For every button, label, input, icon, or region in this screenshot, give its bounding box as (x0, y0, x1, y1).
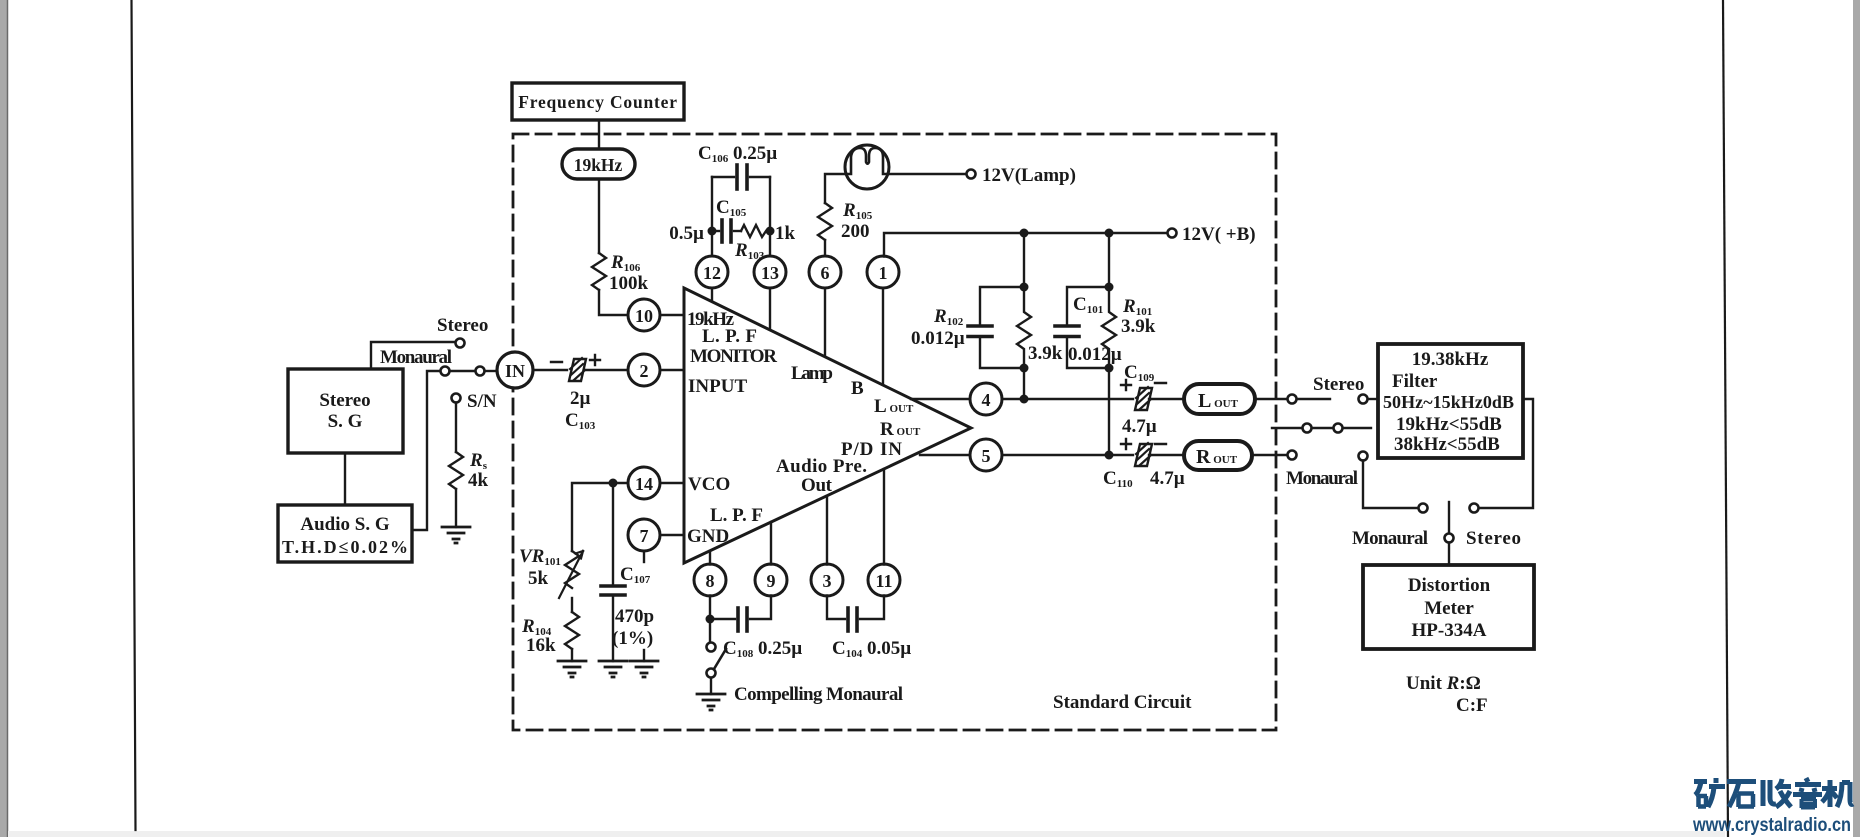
pin 6 (809, 256, 841, 288)
wire: pin 4 to C109 (1002, 398, 1133, 400)
svg-text:200: 200 (841, 221, 870, 242)
wire: lamp to R105 (825, 174, 846, 203)
wire: counter box to 19kHz oval (598, 120, 600, 150)
wire: pin 7 stub to ground (643, 650, 645, 661)
wire: pin 1 into IC (882, 288, 884, 386)
svg-text:L. P. F: L. P. F (702, 326, 757, 347)
wire: Rs to ground (455, 489, 457, 527)
node: pin 8 switch junction (706, 615, 715, 624)
svg-text:12V(Lamp): 12V(Lamp) (982, 165, 1076, 186)
resistor R106 (592, 253, 606, 290)
svg-text:6: 6 (821, 263, 830, 283)
Frequency Counter box (512, 83, 684, 120)
svg-text:C104 0.05µ: C104 0.05µ (832, 638, 911, 660)
L OUT oval (1184, 384, 1255, 414)
R OUT oval (1184, 441, 1252, 470)
watermark CJK char 2 (shi) (1727, 782, 1756, 808)
ground (R104) (558, 661, 586, 677)
watermark CJK char 5 (ji) (1822, 780, 1853, 807)
wire: audio SG to monaural contact (412, 371, 440, 530)
wire: rail drop to R101 group (1108, 233, 1110, 287)
wire: stereo SG to stereo contact (371, 342, 455, 369)
terminal: R monaural contact (1288, 451, 1297, 460)
capacitor C109 4.7u electrolytic (1121, 362, 1166, 437)
wire: pin 10 to IC (660, 314, 684, 316)
svg-text:1k: 1k (775, 223, 796, 244)
wire: pin 2 to IC (660, 369, 684, 371)
svg-text:4k: 4k (468, 470, 489, 491)
wire: R101 group to pin-5 line (1108, 368, 1110, 455)
svg-text:16k: 16k (526, 635, 556, 656)
svg-text:Stereo: Stereo (1466, 528, 1521, 549)
ground (C107) (599, 661, 627, 677)
wire: IN to C103 (533, 369, 567, 371)
wire: IC to pin 4 (911, 398, 971, 400)
svg-text:470p: 470p (615, 606, 654, 627)
node: R103 right junction (766, 227, 775, 236)
svg-text:Meter: Meter (1424, 598, 1474, 619)
svg-text:C:F: C:F (1456, 695, 1488, 716)
switch arm L (1297, 398, 1330, 400)
selector common pole (1445, 502, 1454, 565)
svg-text:100k: 100k (609, 273, 649, 294)
terminal: selector stereo contact (1470, 504, 1479, 513)
wire: L-OUT oval to stereo contact (1255, 398, 1287, 400)
lamp (845, 145, 889, 189)
pin 10 (628, 299, 660, 331)
svg-text:Unit R:Ω: Unit R:Ω (1406, 673, 1481, 694)
watermark CJK char 1 (kuang) (1694, 778, 1725, 807)
svg-text:4.7µ: 4.7µ (1150, 468, 1185, 489)
pin 13 (754, 256, 786, 288)
resistor R103 (741, 225, 766, 237)
svg-text:Filter: Filter (1392, 371, 1438, 392)
svg-text:IN: IN (505, 361, 525, 381)
svg-text:7: 7 (640, 526, 649, 546)
19kHz oval (562, 149, 635, 179)
pin 3 (811, 564, 843, 596)
node: on pin-4 line (1020, 395, 1029, 404)
svg-text:19kHz: 19kHz (574, 155, 623, 175)
svg-text:Audio Pre.: Audio Pre. (776, 456, 867, 477)
wire: +B rail from pin 1 (884, 233, 1168, 257)
watermark CJK char 4 (yin) (1793, 778, 1822, 808)
resistor R101 3.9k (1102, 287, 1116, 368)
wire: C103 to pin 2 (584, 369, 626, 371)
left grey scanner edge (0, 0, 7, 837)
wire: S/N to Rs (455, 403, 457, 453)
terminal: lower monaural feed (1359, 452, 1419, 509)
svg-text:5: 5 (982, 446, 991, 466)
svg-text:VCO: VCO (688, 474, 730, 495)
IC triangle (stereo demodulator) (684, 288, 971, 563)
left page border line (132, 0, 136, 830)
terminal: monaural contact (441, 367, 450, 376)
input select pole contact (450, 367, 498, 376)
svg-text:12: 12 (703, 263, 721, 283)
capacitor C107 470p branch (601, 483, 625, 661)
wire: IC to pin 8 (709, 551, 711, 565)
svg-text:11: 11 (875, 571, 892, 591)
audio signal generator box (278, 505, 412, 562)
node: C105 left junction (708, 227, 717, 236)
wire: VR101 to R104 (571, 598, 573, 612)
pin 1 (867, 256, 899, 288)
svg-text:0.5µ: 0.5µ (669, 223, 704, 244)
svg-text:INPUT: INPUT (688, 376, 747, 397)
capacitor C108 0.25u between pins 8 and 9 (710, 596, 802, 661)
svg-text:L. P. F: L. P. F (710, 505, 763, 526)
capacitor C106 top loop: right vertical wire (769, 177, 771, 257)
capacitor C101 0.012u (1055, 287, 1122, 368)
pin 4 (970, 383, 1002, 415)
terminal 12V(Lamp) (967, 170, 976, 179)
svg-text:MONITOR: MONITOR (690, 346, 777, 367)
svg-text:38kHz<55dB: 38kHz<55dB (1394, 434, 1500, 455)
resistor R105 (818, 203, 832, 240)
node: R102 group bottom (1020, 364, 1029, 373)
wire: rail drop to R102 group (1023, 233, 1025, 287)
svg-text:2µ: 2µ (570, 388, 591, 409)
svg-text:Compelling Monaural: Compelling Monaural (734, 684, 903, 705)
wire: filter box to selector stereo contact (1479, 399, 1533, 508)
svg-text:8: 8 (706, 571, 715, 591)
watermark CJK char 3 (shou) (1763, 779, 1791, 807)
svg-text:1: 1 (879, 263, 888, 283)
svg-text:19kHz<55dB: 19kHz<55dB (1396, 414, 1502, 435)
19.38kHz filter box (1378, 344, 1523, 458)
terminal 12V(+B) (1168, 229, 1177, 238)
svg-text:Monaural: Monaural (1352, 528, 1428, 549)
dashed standard-circuit border (513, 134, 1276, 730)
pin 2 (628, 354, 660, 386)
wire: oval to R106 (598, 179, 600, 253)
svg-text:14: 14 (635, 474, 653, 494)
ground (compelling monaural) (697, 694, 725, 710)
svg-text:S/N: S/N (467, 391, 497, 412)
wire: R-OUT oval to monaural contact (1252, 454, 1287, 456)
node IN (497, 352, 533, 388)
node: R101 group bottom (1105, 364, 1114, 373)
wire: R105 to pin 6 (824, 240, 826, 257)
svg-text:GND: GND (687, 526, 729, 547)
svg-text:Out: Out (801, 475, 833, 496)
wire: C109 to L-OUT oval (1149, 398, 1184, 400)
wire: pin 7 ground stub (643, 551, 645, 562)
svg-text:(1%): (1%) (612, 628, 653, 649)
pin 7 (628, 519, 660, 551)
pin 12 (696, 256, 728, 288)
capacitor C103 2u electrolytic (551, 355, 600, 432)
svg-text:Stereo: Stereo (1313, 374, 1364, 395)
pin 11 (868, 564, 900, 596)
svg-text:4: 4 (982, 390, 991, 410)
terminal: stereo contact (456, 339, 465, 348)
wire: lamp to 12V(Lamp) terminal (888, 173, 966, 175)
capacitor C105 (669, 197, 746, 244)
capacitor C106 top loop: left vertical wire (711, 177, 713, 257)
right grey scanner edge (1853, 0, 1860, 837)
wire: R102 group to pin-4 line (1023, 368, 1025, 399)
svg-text:HP-334A: HP-334A (1412, 620, 1487, 641)
svg-text:C106 0.25µ: C106 0.25µ (698, 143, 777, 165)
node: on pin-5 line (1105, 451, 1114, 460)
svg-text:3: 3 (823, 571, 832, 591)
svg-text:2: 2 (640, 361, 649, 381)
ground (Rs) (442, 527, 470, 543)
svg-text:Stereo: Stereo (319, 390, 370, 411)
wire: stereo contact to filter box (1359, 395, 1379, 404)
wire: C110 to R-OUT oval (1149, 454, 1184, 456)
distortion meter box (1363, 565, 1534, 649)
wire: IC to pin 5 (920, 454, 971, 456)
ground (pin 7) (630, 661, 658, 677)
wire: pin 5 to C110 (1002, 454, 1133, 456)
node: pin 14 branch junction (609, 479, 618, 488)
svg-text:Frequency Counter: Frequency Counter (518, 92, 678, 112)
svg-text:S. G: S. G (328, 411, 363, 432)
svg-text:0.012µ: 0.012µ (911, 328, 965, 349)
node: R101 group top (1105, 283, 1114, 292)
terminal S/N (452, 394, 461, 403)
wire: R104 to ground (571, 649, 573, 661)
pin 8 (694, 564, 726, 596)
variable resistor VR101 5k (519, 546, 583, 598)
wire: stereo SG to audio SG (344, 453, 346, 505)
wire: IC to pin 9 (770, 522, 772, 565)
resistor 3.9k (R102 group) (1017, 287, 1031, 368)
node: rail junction at R102 branch (1020, 229, 1029, 238)
svg-text:C108 0.25µ: C108 0.25µ (723, 638, 802, 660)
svg-text:www.crystalradio.cn: www.crystalradio.cn (1692, 814, 1851, 836)
node: R102 group top (1020, 283, 1029, 292)
wire: R106 to pin 10 (599, 290, 626, 315)
svg-text:T.H.D≤0.02%: T.H.D≤0.02% (282, 537, 408, 557)
svg-text:50Hz~15kHz0dB: 50Hz~15kHz0dB (1383, 392, 1514, 412)
stereo signal generator box (288, 369, 403, 453)
wire: pin 14 to IC (660, 482, 684, 484)
right page border line (1723, 0, 1728, 837)
wire: pin 13 into IC (769, 288, 771, 331)
svg-text:0.012µ: 0.012µ (1068, 344, 1122, 365)
svg-text:3.9k: 3.9k (1028, 343, 1063, 364)
wire: IC to pin 3 (826, 496, 828, 565)
switch arm middle row (1272, 424, 1371, 433)
svg-text:19.38kHz: 19.38kHz (1412, 349, 1489, 370)
capacitor C110 4.7u electrolytic (1103, 439, 1185, 490)
svg-text:B: B (851, 378, 864, 399)
svg-text:12V( +B): 12V( +B) (1182, 224, 1256, 245)
svg-text:3.9k: 3.9k (1121, 316, 1156, 337)
svg-text:13: 13 (761, 263, 779, 283)
svg-text:Lamp: Lamp (791, 363, 833, 384)
terminal: selector monaural contact (1419, 504, 1428, 513)
svg-text:Monaural: Monaural (380, 347, 452, 368)
terminal: L stereo contact (1288, 395, 1297, 404)
capacitor C104 0.05u between pins 3 and 11 (827, 596, 911, 661)
svg-text:5k: 5k (528, 568, 549, 589)
svg-text:Monaural: Monaural (1286, 468, 1358, 489)
node: rail junction at R101 branch (1105, 229, 1114, 238)
pin 5 (970, 439, 1002, 471)
svg-text:9: 9 (767, 571, 776, 591)
svg-text:4.7µ: 4.7µ (1122, 416, 1157, 437)
pin 9 (755, 564, 787, 596)
svg-text:Standard Circuit: Standard Circuit (1053, 692, 1192, 713)
bottom page-edge strip (8, 831, 1725, 837)
resistor Rs 4k (449, 452, 463, 489)
resistor R104 16k (565, 612, 579, 649)
pin 14 (628, 467, 660, 499)
wire: pin 14 to VR101 branch (572, 483, 628, 551)
wire: pin 12 into IC (711, 288, 713, 303)
wire: pin 6 into IC (824, 288, 826, 358)
switch: compelling monaural (707, 619, 727, 694)
svg-text:10: 10 (635, 306, 653, 326)
wire: IC to pin 11 (883, 469, 885, 565)
svg-text:Distortion: Distortion (1408, 575, 1491, 596)
svg-text:Stereo: Stereo (437, 315, 488, 336)
svg-text:Audio S. G: Audio S. G (300, 514, 389, 535)
wire: pin 7 to IC (660, 534, 684, 536)
capacitor C106 (698, 143, 777, 189)
capacitor C102 0.012u (R102 group left branch) (911, 287, 1024, 368)
